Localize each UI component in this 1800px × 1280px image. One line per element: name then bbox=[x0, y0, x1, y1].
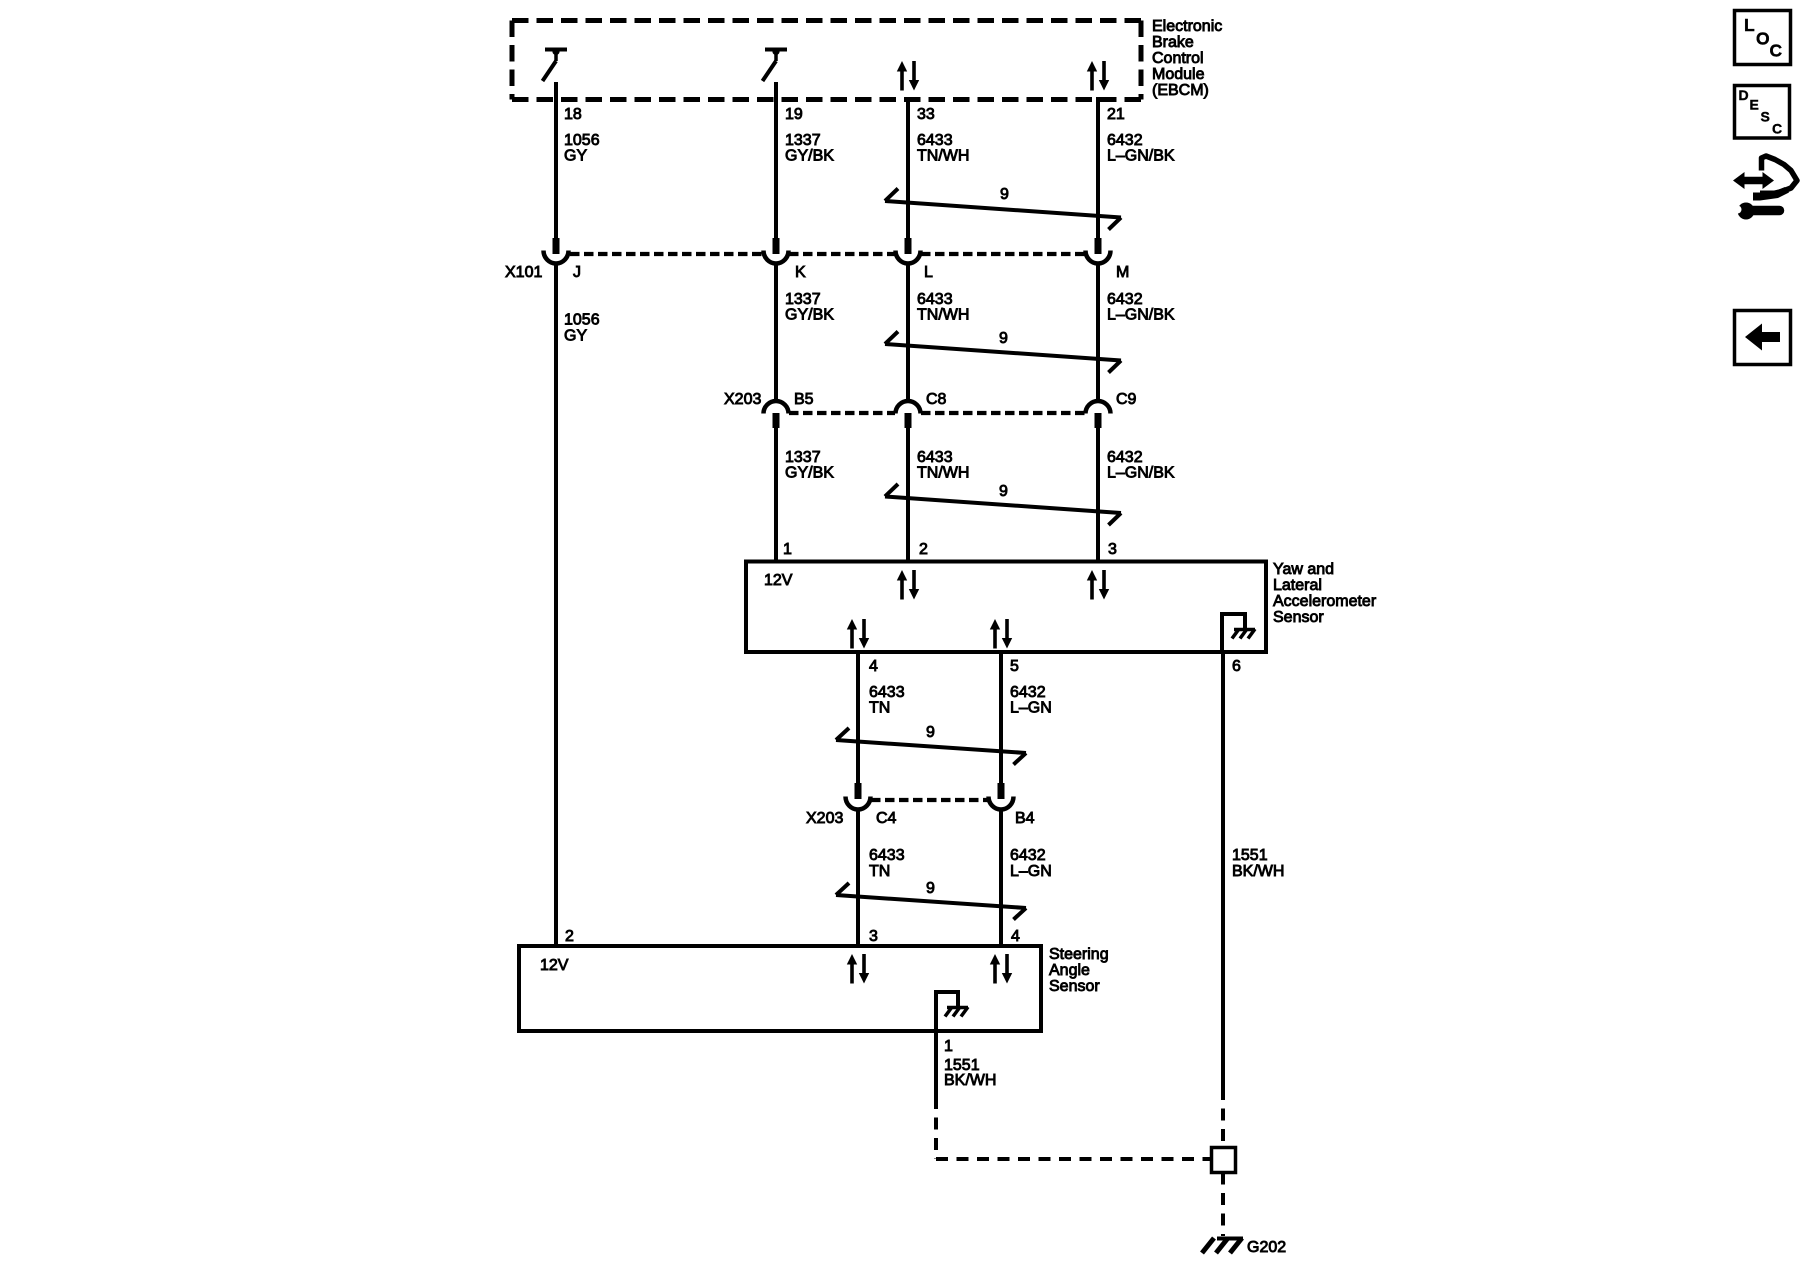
svg-text:1337: 1337 bbox=[785, 291, 821, 308]
svg-text:B5: B5 bbox=[794, 391, 814, 408]
pin number 2 above steering box bbox=[565, 928, 574, 945]
twisted pair label 9 bbox=[999, 483, 1008, 500]
pin number 18 bbox=[564, 106, 582, 123]
pin number 6 bbox=[1232, 658, 1241, 675]
svg-text:L–GN/BK: L–GN/BK bbox=[1107, 465, 1175, 482]
wire 6432 L-GN/BK from X101 M to X203 C9 bbox=[1096, 262, 1100, 401]
bidirectional signal arrows in yaw sensor pin 2 bbox=[897, 570, 919, 600]
circuit label 1337 GY/BK bbox=[785, 132, 834, 165]
pin number 1 bbox=[783, 541, 792, 558]
terminal letter C8 bbox=[926, 391, 947, 408]
svg-text:3: 3 bbox=[1108, 541, 1117, 558]
svg-text:GY/BK: GY/BK bbox=[785, 307, 834, 324]
connector X203 terminal C8 bbox=[896, 401, 921, 428]
svg-text:D: D bbox=[1739, 87, 1749, 103]
wire 1551 BK/WH from yaw sensor pin 6 bbox=[1221, 652, 1225, 1088]
wire 1337 GY/BK from X101 K to X203 B5 bbox=[774, 262, 778, 401]
svg-text:L–GN/BK: L–GN/BK bbox=[1107, 307, 1175, 324]
terminal letter C9 bbox=[1116, 391, 1137, 408]
svg-text:Electronic: Electronic bbox=[1152, 18, 1222, 35]
svg-text:Lateral: Lateral bbox=[1273, 577, 1322, 594]
connector X203 dashed line (upper) bbox=[789, 411, 1085, 415]
svg-text:4: 4 bbox=[869, 658, 878, 675]
connector X101 terminal M bbox=[1086, 251, 1111, 264]
svg-text:L–GN: L–GN bbox=[1010, 700, 1052, 717]
splice S-box bbox=[1212, 1148, 1236, 1173]
svg-text:Sensor: Sensor bbox=[1273, 609, 1324, 626]
circuit label 6432 L-GN/BK bbox=[1107, 132, 1175, 165]
svg-text:9: 9 bbox=[999, 483, 1008, 500]
yaw sensor name label bbox=[1273, 561, 1377, 626]
twisted pair label 9 bbox=[926, 880, 935, 897]
pin number 4 bbox=[869, 658, 878, 675]
circuit label 6433 TN below X203 bbox=[869, 847, 905, 880]
internal ground symbol in steering sensor bbox=[934, 990, 968, 1031]
terminal letter L bbox=[924, 264, 933, 281]
wire 1056 GY from EBCM pin 18 to X101 bbox=[553, 82, 560, 254]
svg-text:B4: B4 bbox=[1015, 810, 1035, 827]
connector label X101 bbox=[505, 264, 542, 281]
svg-text:12V: 12V bbox=[764, 572, 793, 589]
pin number 4 bbox=[1011, 928, 1020, 945]
twisted pair label 9 bbox=[1000, 186, 1009, 203]
svg-text:X203: X203 bbox=[806, 810, 843, 827]
pin number 1 bbox=[944, 1038, 953, 1055]
svg-text:1337: 1337 bbox=[785, 132, 821, 149]
connector X203 terminal C9 bbox=[1086, 401, 1111, 428]
pin number 33 bbox=[917, 106, 935, 123]
back arrow bbox=[1745, 324, 1780, 351]
svg-text:12V: 12V bbox=[540, 957, 569, 974]
label 12V in steering sensor bbox=[540, 957, 569, 974]
bidirectional signal arrows in EBCM on pin 21 bbox=[1087, 61, 1109, 91]
svg-text:Sensor: Sensor bbox=[1049, 978, 1100, 995]
svg-text:6432: 6432 bbox=[1010, 684, 1046, 701]
DESC icon box bbox=[1735, 86, 1790, 139]
svg-text:6432: 6432 bbox=[1107, 291, 1143, 308]
circuit label 6432 L-GN/BK below X101 bbox=[1107, 291, 1175, 324]
twisted pair symbol 9 (X203 section) bbox=[885, 484, 1121, 525]
svg-text:GY/BK: GY/BK bbox=[785, 148, 834, 165]
LOC icon box bbox=[1735, 11, 1791, 65]
circuit label 6432 L-GN below X203 bbox=[1010, 847, 1052, 880]
svg-text:C4: C4 bbox=[876, 810, 897, 827]
svg-text:C9: C9 bbox=[1116, 391, 1137, 408]
svg-text:1: 1 bbox=[783, 541, 792, 558]
svg-text:GY: GY bbox=[564, 328, 587, 345]
terminal letter J bbox=[573, 264, 581, 281]
wire 1337 GY/BK from X203 B5 to yaw sensor pin 1 bbox=[774, 428, 778, 561]
svg-text:G202: G202 bbox=[1247, 1239, 1286, 1256]
svg-text:6432: 6432 bbox=[1010, 847, 1046, 864]
circuit label 6433 TN/WH below X203 bbox=[917, 449, 969, 482]
connector X101 terminal L bbox=[896, 251, 921, 264]
svg-text:C8: C8 bbox=[926, 391, 947, 408]
svg-text:6433: 6433 bbox=[917, 449, 953, 466]
steering angle sensor box bbox=[519, 946, 1041, 1031]
svg-text:S: S bbox=[1761, 109, 1770, 125]
steering sensor name label bbox=[1049, 946, 1109, 995]
svg-text:9: 9 bbox=[1000, 186, 1009, 203]
bidirectional signal arrows in steering sensor pin 4 bbox=[990, 954, 1012, 984]
pin number 19 bbox=[785, 106, 803, 123]
connector X203 dashed line (lower) bbox=[871, 798, 988, 802]
svg-text:33: 33 bbox=[917, 106, 935, 123]
wire 1056 GY from X101 J to steering angle sensor pin 2 bbox=[554, 262, 558, 946]
diagnostic connector outline icon bbox=[1753, 156, 1797, 201]
svg-text:TN: TN bbox=[869, 700, 890, 717]
svg-text:6432: 6432 bbox=[1107, 132, 1143, 149]
svg-text:6433: 6433 bbox=[917, 132, 953, 149]
connector label X203 (upper) bbox=[724, 391, 761, 408]
svg-text:Angle: Angle bbox=[1049, 962, 1090, 979]
bidirectional signal arrows in yaw sensor pin 5 bbox=[990, 619, 1012, 649]
svg-text:1: 1 bbox=[944, 1038, 953, 1055]
label 12V in yaw sensor bbox=[764, 572, 793, 589]
terminal letter M bbox=[1116, 264, 1129, 281]
svg-text:K: K bbox=[795, 264, 806, 281]
dashed wire from splice to ground bbox=[1221, 1173, 1225, 1237]
circuit label 6433 TN bbox=[869, 684, 905, 717]
svg-text:L–GN/BK: L–GN/BK bbox=[1107, 148, 1175, 165]
svg-text:TN/WH: TN/WH bbox=[917, 465, 969, 482]
connector X101 terminal K bbox=[764, 251, 789, 264]
svg-text:Accelerometer: Accelerometer bbox=[1273, 593, 1377, 610]
diagnostic double arrow icon bbox=[1733, 172, 1774, 189]
EBCM module dashed box bbox=[512, 21, 1141, 100]
pin number 5 bbox=[1010, 658, 1019, 675]
twisted pair label 9 bbox=[926, 724, 935, 741]
svg-text:TN/WH: TN/WH bbox=[917, 148, 969, 165]
svg-text:BK/WH: BK/WH bbox=[1232, 863, 1284, 880]
circuit label 6432 L-GN/BK below X203 bbox=[1107, 449, 1175, 482]
wire 6433 TN/WH from EBCM pin 33 to X101 bbox=[905, 97, 912, 254]
twisted pair symbol 9 (EBCM section) bbox=[885, 189, 1121, 230]
circuit label 1551 BK/WH (right) bbox=[1232, 847, 1284, 880]
svg-text:9: 9 bbox=[926, 724, 935, 741]
twisted pair symbol 9 (yaw sensor section) bbox=[836, 728, 1026, 765]
svg-text:BK/WH: BK/WH bbox=[944, 1072, 996, 1089]
svg-text:(EBCM): (EBCM) bbox=[1152, 82, 1209, 99]
wire 6432 L-GN/BK from EBCM pin 21 to X101 bbox=[1095, 97, 1102, 254]
svg-text:M: M bbox=[1116, 264, 1129, 281]
svg-text:3: 3 bbox=[869, 928, 878, 945]
internal ground symbol in yaw sensor bbox=[1220, 612, 1255, 652]
circuit label 6432 L-GN bbox=[1010, 684, 1052, 717]
wire 1337 GY/BK from EBCM pin 19 to X101 bbox=[773, 82, 780, 254]
circuit label 1056 GY below X101 bbox=[564, 312, 600, 345]
svg-text:Brake: Brake bbox=[1152, 34, 1194, 51]
wire 6432 L-GN/BK from X203 C9 to yaw sensor pin 3 bbox=[1096, 428, 1100, 561]
svg-text:J: J bbox=[573, 264, 581, 281]
connector X101 terminal J bbox=[544, 251, 569, 264]
svg-text:9: 9 bbox=[999, 330, 1008, 347]
svg-text:18: 18 bbox=[564, 106, 582, 123]
dashed ground wire from yaw sensor bbox=[1221, 1088, 1225, 1147]
wire 6432 L-GN from X203 B4 to steering angle sensor pin 4 bbox=[999, 809, 1003, 946]
svg-text:6432: 6432 bbox=[1107, 449, 1143, 466]
svg-text:Module: Module bbox=[1152, 66, 1205, 83]
svg-text:L: L bbox=[924, 264, 933, 281]
twisted pair symbol 9 (X101 section) bbox=[885, 332, 1121, 373]
svg-text:9: 9 bbox=[926, 880, 935, 897]
svg-text:6433: 6433 bbox=[869, 847, 905, 864]
twisted pair symbol 9 (steering section) bbox=[836, 883, 1026, 920]
connector X203 terminal B4 bbox=[989, 797, 1014, 810]
terminal letter C4 bbox=[876, 810, 897, 827]
bidirectional signal arrows in yaw sensor pin 4 bbox=[847, 619, 869, 649]
svg-text:TN: TN bbox=[869, 863, 890, 880]
circuit label 6433 TN/WH below X101 bbox=[917, 291, 969, 324]
wire 6432 L-GN from yaw sensor pin 5 to X203 B4 bbox=[998, 652, 1005, 799]
bidirectional signal arrows in steering sensor pin 3 bbox=[847, 954, 869, 984]
switch contact in EBCM on pin 19 bbox=[763, 48, 788, 81]
pin number 21 bbox=[1107, 106, 1125, 123]
wire 6433 TN from yaw sensor pin 4 to X203 C4 bbox=[855, 652, 862, 799]
svg-text:2: 2 bbox=[919, 541, 928, 558]
wire 6433 TN/WH from X203 C8 to yaw sensor pin 2 bbox=[906, 428, 910, 561]
connector label X203 (lower) bbox=[806, 810, 843, 827]
svg-text:TN/WH: TN/WH bbox=[917, 307, 969, 324]
bidirectional signal arrows in yaw sensor pin 3 bbox=[1087, 570, 1109, 600]
svg-text:Yaw and: Yaw and bbox=[1273, 561, 1334, 578]
svg-text:GY: GY bbox=[564, 148, 587, 165]
svg-text:21: 21 bbox=[1107, 106, 1125, 123]
DESC icon letters bbox=[1739, 87, 1783, 137]
switch contact in EBCM on pin 18 bbox=[543, 48, 568, 81]
LOC icon letters bbox=[1744, 15, 1783, 61]
svg-text:C: C bbox=[1770, 41, 1783, 61]
EBCM module name label bbox=[1152, 18, 1222, 99]
svg-text:GY/BK: GY/BK bbox=[785, 465, 834, 482]
svg-text:X101: X101 bbox=[505, 264, 542, 281]
svg-text:C: C bbox=[1772, 121, 1782, 137]
svg-text:1056: 1056 bbox=[564, 132, 600, 149]
svg-text:E: E bbox=[1750, 97, 1759, 113]
pin number 3 bbox=[1108, 541, 1117, 558]
svg-text:1551: 1551 bbox=[1232, 847, 1268, 864]
svg-text:L: L bbox=[1744, 15, 1755, 35]
svg-text:L–GN: L–GN bbox=[1010, 863, 1052, 880]
pin number 3 bbox=[869, 928, 878, 945]
svg-text:4: 4 bbox=[1011, 928, 1020, 945]
svg-text:19: 19 bbox=[785, 106, 803, 123]
wire 6433 TN from X203 C4 to steering angle sensor pin 3 bbox=[856, 809, 860, 946]
pin number 2 bbox=[919, 541, 928, 558]
wrench icon bbox=[1734, 203, 1780, 220]
back arrow icon box bbox=[1735, 311, 1791, 365]
terminal letter B5 bbox=[794, 391, 814, 408]
svg-text:1056: 1056 bbox=[564, 312, 600, 329]
connector X101 dashed line bbox=[570, 252, 1085, 256]
svg-text:O: O bbox=[1756, 29, 1770, 49]
terminal letter K bbox=[795, 264, 806, 281]
twisted pair label 9 bbox=[999, 330, 1008, 347]
svg-text:X203: X203 bbox=[724, 391, 761, 408]
dashed ground wire from steering sensor bbox=[936, 1097, 1210, 1159]
svg-text:6433: 6433 bbox=[869, 684, 905, 701]
ground label G202 bbox=[1247, 1239, 1286, 1256]
circuit label 1337 GY/BK below X101 bbox=[785, 291, 834, 324]
svg-text:5: 5 bbox=[1010, 658, 1019, 675]
svg-text:Control: Control bbox=[1152, 50, 1204, 67]
wire 6433 TN/WH from X101 L to X203 C8 bbox=[906, 262, 910, 401]
svg-text:6433: 6433 bbox=[917, 291, 953, 308]
circuit label 1337 GY/BK below X203 bbox=[785, 449, 834, 482]
connector X203 terminal B5 bbox=[764, 401, 789, 428]
circuit label 6433 TN/WH bbox=[917, 132, 969, 165]
svg-text:2: 2 bbox=[565, 928, 574, 945]
ground symbol G202 bbox=[1202, 1238, 1243, 1253]
terminal letter B4 bbox=[1015, 810, 1035, 827]
yaw and lateral accelerometer sensor box bbox=[746, 562, 1266, 653]
connector X203 terminal C4 bbox=[846, 797, 871, 810]
circuit label 1551 BK/WH (bottom) bbox=[944, 1057, 996, 1089]
svg-text:6: 6 bbox=[1232, 658, 1241, 675]
wire 1551 BK/WH from steering sensor pin 1 bbox=[934, 1031, 938, 1097]
circuit label 1056 GY bbox=[564, 132, 600, 165]
svg-text:1337: 1337 bbox=[785, 449, 821, 466]
bidirectional signal arrows in EBCM on pin 33 bbox=[897, 61, 919, 91]
svg-text:Steering: Steering bbox=[1049, 946, 1109, 963]
